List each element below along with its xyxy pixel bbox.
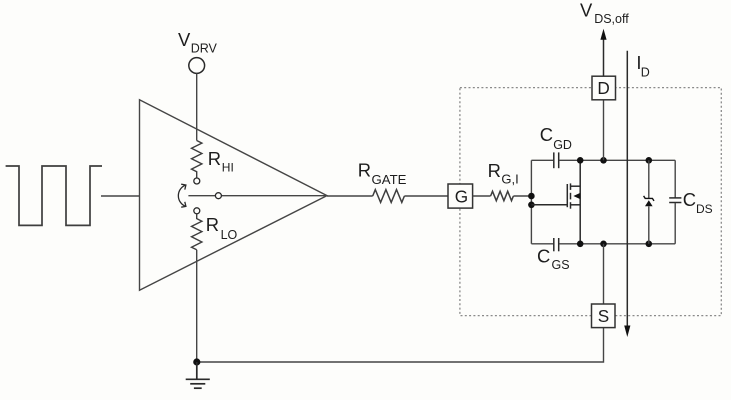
label C_GS bbox=[537, 246, 570, 272]
wire top rail left segment bbox=[531, 159, 553, 161]
svg-text:S: S bbox=[598, 306, 609, 326]
svg-text:R: R bbox=[206, 214, 219, 235]
label R_G,I bbox=[488, 160, 519, 186]
wire input to driver bbox=[101, 195, 140, 197]
svg-text:GS: GS bbox=[552, 258, 570, 272]
wire gate branch vertical bbox=[530, 160, 532, 244]
svg-text:C: C bbox=[683, 189, 696, 210]
wire R_G,I to gate node bbox=[513, 195, 531, 197]
wire bottom rail right segment bbox=[559, 243, 675, 245]
resistor R_G,I bbox=[491, 191, 514, 200]
label I_D bbox=[636, 52, 649, 79]
svg-text:DS: DS bbox=[696, 202, 713, 216]
node bottom rail at S line bbox=[600, 241, 607, 248]
terminal box S bbox=[592, 304, 616, 328]
capacitor C_DS bbox=[669, 198, 681, 203]
node gate junction lower bbox=[528, 202, 535, 209]
label V_DS,off bbox=[580, 0, 629, 26]
label R_GATE bbox=[358, 160, 407, 187]
label V_DRV bbox=[178, 29, 218, 55]
switch throw terminal circle (R_HI side) bbox=[194, 178, 200, 184]
ground bbox=[186, 362, 210, 388]
input square wave signal bbox=[6, 166, 102, 225]
svg-text:V: V bbox=[580, 0, 593, 21]
svg-text:LO: LO bbox=[221, 228, 238, 242]
capacitor C_GD bbox=[554, 152, 559, 168]
V_DRV supply terminal bbox=[189, 58, 205, 74]
wire diode branch lower bbox=[648, 206, 650, 244]
node bottom rail at MOSFET source bbox=[577, 241, 584, 248]
wire bottom rail left segment bbox=[531, 243, 553, 245]
terminal box G bbox=[448, 184, 473, 208]
label C_DS bbox=[683, 189, 713, 216]
label R_HI bbox=[208, 148, 234, 175]
resistor R_GATE bbox=[373, 190, 405, 203]
switch arc arrow bbox=[178, 184, 186, 207]
wire V_DRV to R_HI bbox=[196, 74, 198, 141]
svg-text:C: C bbox=[540, 124, 553, 145]
svg-text:HI: HI bbox=[222, 161, 234, 175]
switch pole wire bbox=[188, 195, 327, 197]
ground junction node bbox=[193, 358, 200, 365]
node top rail at diode bbox=[646, 157, 653, 164]
svg-text:DRV: DRV bbox=[191, 41, 218, 55]
svg-text:GATE: GATE bbox=[372, 172, 407, 187]
node gate junction upper bbox=[528, 193, 535, 200]
node top rail at D line bbox=[600, 157, 607, 164]
wire C_DS branch upper bbox=[674, 160, 676, 197]
op-amp U1 driver triangle bbox=[140, 100, 328, 290]
resistor R_LO bbox=[192, 214, 202, 250]
resistor R_HI bbox=[192, 141, 202, 178]
wire R_LO to ground bbox=[196, 250, 198, 362]
svg-text:G: G bbox=[455, 186, 468, 206]
svg-text:R: R bbox=[358, 160, 371, 181]
wire R_GATE to G box bbox=[404, 195, 448, 197]
wire C_DS branch lower bbox=[674, 203, 676, 244]
svg-text:R: R bbox=[208, 148, 221, 169]
wire G to R_G,I bbox=[473, 195, 491, 197]
wire drain to D box bbox=[603, 100, 605, 161]
wire top rail right segment bbox=[559, 159, 675, 161]
svg-text:V: V bbox=[178, 29, 191, 50]
svg-text:GD: GD bbox=[553, 138, 572, 152]
transistor Q1 MOSFET bbox=[531, 160, 580, 244]
switch pole circle bbox=[215, 193, 221, 199]
wire S box to bottom rail bbox=[603, 244, 605, 304]
svg-text:D: D bbox=[597, 78, 609, 98]
wire driver output to R_GATE bbox=[327, 195, 373, 197]
diode body diode bbox=[644, 196, 654, 206]
wire diode branch upper bbox=[648, 160, 650, 198]
label C_GD bbox=[540, 124, 572, 152]
svg-text:C: C bbox=[537, 246, 550, 267]
svg-text:DS,off: DS,off bbox=[594, 12, 629, 26]
ground return wire from source bbox=[197, 328, 604, 362]
node top rail at MOSFET drain bbox=[577, 157, 584, 164]
svg-text:D: D bbox=[641, 66, 650, 80]
svg-text:G,I: G,I bbox=[501, 172, 518, 187]
line I_D current arrow bbox=[624, 51, 630, 337]
arrow V_DS,off bbox=[600, 29, 606, 76]
node bottom rail at diode bbox=[646, 241, 653, 248]
switch throw terminal circle (R_LO side) bbox=[194, 208, 200, 214]
dashed MOSFET model boundary box bbox=[460, 88, 721, 316]
label R_LO bbox=[206, 214, 238, 242]
capacitor C_GS bbox=[554, 238, 559, 251]
svg-text:R: R bbox=[488, 160, 501, 181]
terminal box D bbox=[592, 76, 616, 100]
